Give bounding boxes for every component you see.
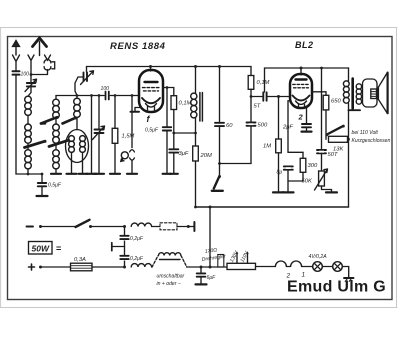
node BL2 anode — [300, 67, 303, 70]
coil L1a — [25, 96, 32, 115]
node bus L1 — [27, 173, 30, 176]
note bei 110 Volt — [352, 130, 391, 144]
choke Dr — [191, 67, 203, 134]
capacitor 6uF — [197, 267, 216, 284]
svg-text:8μ: 8μ — [277, 170, 283, 176]
wire grid top link — [265, 68, 349, 92]
svg-text:bei 110 Volt: bei 110 Volt — [352, 130, 379, 136]
grid bus wire — [56, 95, 140, 97]
wire trimmer to coil L1 — [28, 86, 31, 96]
wire lamp to chassis — [342, 267, 348, 278]
node 133a — [172, 132, 175, 135]
node 1M — [277, 95, 280, 98]
band switch blade S1a — [41, 116, 59, 124]
wire to humps — [256, 266, 276, 268]
svg-text:650: 650 — [331, 99, 341, 105]
BL2 anode lead — [300, 68, 302, 75]
svg-text:0,2μF: 0,2μF — [130, 256, 144, 262]
capacitor 5T — [251, 92, 290, 109]
tube BL2 envelope — [290, 74, 312, 108]
RENS base leads — [148, 107, 155, 113]
capacitor 100 (antenna A1 series) — [13, 71, 30, 77]
wire between lamps — [322, 266, 332, 268]
note umschaltbar — [157, 274, 185, 288]
B+ bus — [196, 206, 349, 208]
wire riser 210 — [209, 207, 211, 267]
resistor 170 ohm — [201, 247, 226, 267]
svg-text:6μF: 6μF — [207, 275, 217, 281]
ground 3uF — [170, 173, 178, 175]
wire to plug — [177, 226, 187, 228]
node 50T top — [320, 67, 323, 70]
svg-text:=: = — [56, 244, 61, 254]
svg-text:Emud Ulm G: Emud Ulm G — [287, 279, 386, 296]
ground 2uF — [302, 131, 312, 133]
svg-text:0,1M: 0,1M — [179, 101, 192, 107]
choke row2 — [131, 264, 151, 267]
node fork bottom — [30, 73, 33, 76]
RENS anode lead — [150, 67, 152, 72]
ground earth — [37, 195, 48, 197]
node C-tune — [98, 94, 101, 97]
mains switch — [76, 220, 93, 228]
wire to dashed box — [152, 226, 160, 228]
svg-text:BL2: BL2 — [295, 40, 314, 50]
svg-text:4V/0,2A: 4V/0,2A — [309, 254, 328, 260]
resistor 13K — [329, 136, 348, 152]
wire fuse to node — [92, 266, 125, 268]
chassis ground lamps — [344, 278, 354, 281]
band switch blade S2b — [49, 139, 70, 147]
ground oval right leg — [79, 173, 88, 175]
svg-text:50K: 50K — [302, 179, 313, 185]
resistor 1.5M — [112, 96, 134, 174]
ground 1M — [273, 191, 284, 193]
switchable coil — [152, 253, 187, 267]
tube RENS1884 envelope — [139, 70, 163, 112]
capacitor 0.5uF screen — [145, 88, 171, 174]
trimmer capacitor C-ant — [25, 75, 37, 92]
antenna A1 — [13, 41, 20, 56]
antenna A2 socket fork right — [45, 55, 51, 60]
capacitor 50T — [317, 68, 338, 158]
BL2 cathode — [293, 96, 310, 101]
node bus 0.5uF — [41, 173, 44, 176]
node plus — [39, 266, 42, 269]
node stator — [90, 94, 93, 97]
BL2 heater — [296, 101, 307, 104]
screen exit wire — [163, 88, 174, 96]
wire BL2 cathode tap — [288, 101, 290, 153]
svg-text:0,2μF: 0,2μF — [130, 236, 144, 242]
svg-text:100: 100 — [21, 72, 30, 78]
node minus — [39, 225, 42, 228]
terminal plus — [29, 264, 35, 270]
node plug — [187, 225, 190, 228]
node 6uF — [200, 266, 203, 269]
svg-text:Drehregler: Drehregler — [201, 254, 226, 263]
svg-text:in + oder −: in + oder − — [157, 281, 181, 287]
RENS shield ground — [131, 108, 142, 112]
resistor 20M — [193, 133, 212, 207]
trimmer capacitor C-osc top — [81, 67, 94, 85]
node B+ left — [194, 206, 197, 209]
resistor 0.1M screen — [171, 96, 192, 133]
svg-text:130V: 130V — [229, 250, 240, 264]
pickup symbol — [121, 152, 129, 162]
svg-text:0,5μF: 0,5μF — [48, 183, 62, 189]
ground oval left leg — [67, 173, 77, 175]
node anode — [149, 65, 152, 68]
node L3 tap — [76, 94, 79, 97]
border frame — [8, 37, 393, 300]
capacitor 0.2uF upper — [120, 227, 144, 268]
node riser bottom — [209, 266, 212, 269]
resistor 1M — [263, 97, 281, 193]
heater hump 2 — [275, 261, 290, 280]
resistor 650 — [312, 92, 341, 140]
wire plus row — [41, 266, 71, 268]
BL2 anode plate — [296, 78, 307, 80]
svg-text:500: 500 — [258, 123, 268, 129]
fuse 0.3A — [71, 257, 93, 271]
svg-text:0,5μF: 0,5μF — [145, 128, 159, 134]
ground 50K — [326, 191, 337, 193]
coil L2b — [53, 118, 60, 143]
svg-text:1M: 1M — [263, 144, 271, 150]
chassis tap — [112, 243, 125, 251]
capacitor 500 — [247, 123, 268, 129]
svg-text:Kurzgeschlossen: Kurzgeschlossen — [352, 138, 391, 144]
dial lamp 1 — [313, 262, 323, 272]
ground C-tune — [94, 173, 104, 175]
capacitor 2uF — [282, 108, 311, 131]
heater hump 1 — [286, 261, 305, 279]
capacitor 8uF — [277, 166, 293, 192]
potentiometer 50K — [302, 153, 332, 192]
capacitor 0.5uF earth — [38, 174, 62, 196]
resistor 0.1M coupling — [248, 67, 269, 164]
ground bias — [283, 191, 294, 193]
wire switch to node — [91, 226, 125, 228]
oscillator coil assembly (oval) — [66, 130, 89, 174]
coil L3 — [74, 96, 81, 130]
svg-text:RENS 1884: RENS 1884 — [110, 41, 166, 52]
dashed box — [160, 223, 177, 230]
svg-text:20M: 20M — [200, 153, 212, 159]
svg-text:5T: 5T — [254, 104, 261, 110]
wire node133 — [174, 132, 196, 134]
band switch blade S1b — [63, 117, 78, 124]
capacitor 100 grid series — [101, 86, 110, 100]
resistor 300 — [288, 152, 318, 181]
node B+ riser — [209, 206, 212, 209]
wire 163 row — [220, 163, 252, 165]
capacitor 0.2uF lower — [120, 255, 144, 262]
ground 6uF — [196, 283, 207, 285]
ground under L2 — [51, 173, 61, 175]
jack connector — [44, 60, 55, 71]
svg-text:60: 60 — [226, 123, 233, 129]
band switch blade S2a — [25, 140, 47, 148]
wire to lamps — [302, 266, 313, 268]
node 60 top — [218, 65, 221, 68]
svg-text:300: 300 — [308, 163, 318, 169]
coil L2a — [53, 96, 60, 119]
switch across 13K — [325, 125, 344, 136]
RENS heater — [146, 104, 157, 107]
RENS cathode — [142, 98, 160, 103]
svg-text:50T: 50T — [328, 152, 338, 158]
antenna A1 socket fork — [13, 55, 20, 71]
anode bus RENS — [87, 66, 252, 68]
node pickup — [131, 94, 134, 97]
pickup jack chevrons — [130, 96, 135, 174]
node screen — [166, 86, 169, 89]
coil L1c — [25, 143, 32, 174]
dial lamp 2 — [333, 262, 343, 272]
node grid BL2 row — [250, 95, 253, 98]
plug pin — [188, 222, 194, 231]
wire to 6uF node — [187, 266, 227, 268]
wire bias row — [288, 151, 303, 153]
capacitor 3uF — [169, 133, 189, 173]
svg-text:170Ω: 170Ω — [204, 247, 217, 255]
RENS grids — [143, 88, 160, 91]
node row1 — [123, 225, 126, 228]
ground 0.5uF — [163, 173, 171, 175]
svg-text:0,1M: 0,1M — [257, 80, 270, 86]
svg-text:f: f — [147, 114, 151, 124]
ground 1.5M — [110, 173, 120, 175]
svg-text:0,3A: 0,3A — [74, 257, 86, 263]
svg-text:110V: 110V — [239, 250, 250, 264]
node row2 — [123, 266, 126, 269]
svg-text:umschaltbar: umschaltbar — [157, 274, 185, 280]
ground pickup — [127, 173, 137, 175]
svg-text:100: 100 — [101, 86, 110, 92]
node 60 bottom — [218, 162, 221, 165]
label 50W box — [29, 242, 62, 255]
antenna A2 socket fork left — [28, 55, 34, 75]
ground bus left — [16, 173, 42, 175]
speaker — [363, 73, 388, 114]
svg-text:50W: 50W — [32, 244, 50, 254]
tapped resistor mains — [227, 251, 256, 269]
antenna A2 — [33, 38, 47, 56]
wire fork to trimmer — [31, 70, 48, 75]
ground stator — [87, 173, 97, 175]
svg-text:1: 1 — [302, 272, 306, 279]
terminal minus — [27, 226, 34, 228]
coil L1b — [25, 115, 32, 143]
capacitor 60 — [215, 67, 233, 164]
node choke top — [194, 65, 197, 68]
switch dangling — [212, 164, 223, 191]
wire trimmer to coil L3 — [75, 77, 84, 96]
choke row1 — [131, 223, 151, 226]
BL2 grids — [293, 84, 309, 87]
variable capacitor C-tune — [93, 96, 105, 174]
node 133b — [194, 132, 197, 135]
svg-text:2: 2 — [298, 113, 304, 122]
BL2 base leads — [299, 104, 305, 108]
wire stator — [91, 96, 93, 174]
svg-text:3μF: 3μF — [179, 151, 189, 157]
coil L2c — [53, 143, 60, 173]
wire antenna A1 down — [15, 75, 17, 174]
node 1.5M — [114, 94, 117, 97]
node 13K right — [347, 138, 350, 141]
wire minus row — [41, 226, 76, 228]
output transformer — [343, 68, 361, 207]
RENS anode plate — [145, 81, 158, 83]
